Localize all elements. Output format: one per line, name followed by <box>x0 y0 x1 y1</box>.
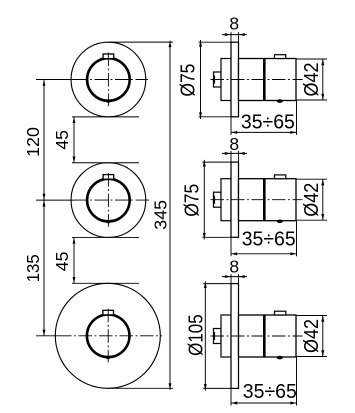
svg-text:35÷65: 35÷65 <box>243 381 297 403</box>
svg-text:Ø75: Ø75 <box>178 64 200 97</box>
svg-text:Ø42: Ø42 <box>301 183 323 217</box>
svg-text:Ø105: Ø105 <box>186 314 208 356</box>
svg-text:35÷65: 35÷65 <box>242 228 296 250</box>
svg-text:Ø42: Ø42 <box>301 63 323 97</box>
svg-text:Ø42: Ø42 <box>301 319 323 353</box>
svg-text:8: 8 <box>229 256 239 276</box>
svg-text:45: 45 <box>52 130 72 150</box>
svg-text:Ø75: Ø75 <box>182 184 204 217</box>
svg-text:8: 8 <box>229 14 239 34</box>
svg-text:45: 45 <box>52 252 72 272</box>
svg-text:135: 135 <box>23 254 43 282</box>
svg-text:120: 120 <box>23 127 43 157</box>
svg-text:35÷65: 35÷65 <box>241 111 295 133</box>
svg-text:345: 345 <box>150 200 170 230</box>
